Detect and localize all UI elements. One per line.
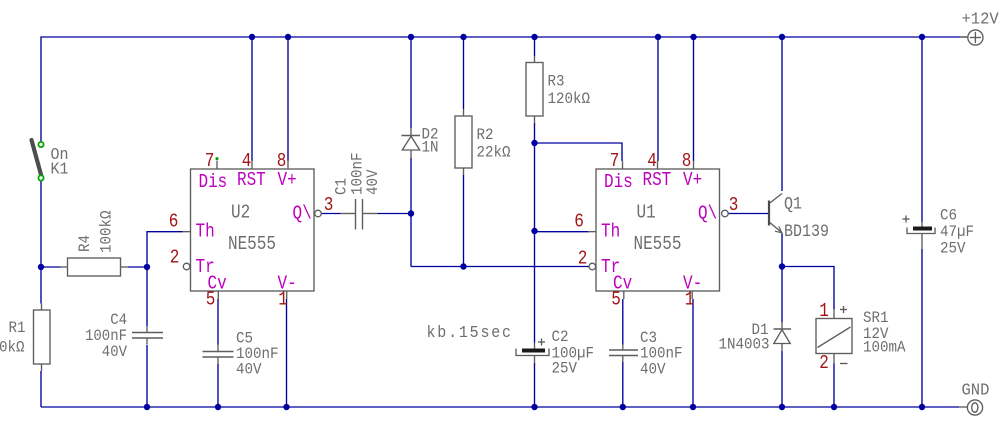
svg-text:SR1: SR1 (863, 310, 889, 327)
timer U2 pin7 unconnected marker (216, 157, 219, 160)
wire U1 pin8 to +12V (693, 37, 695, 161)
timer U1 pin3 bubble (722, 210, 729, 217)
svg-text:8: 8 (682, 151, 692, 173)
svg-text:47µF: 47µF (940, 224, 974, 241)
svg-text:40V: 40V (236, 362, 262, 379)
wire node down to C2 (534, 231, 536, 343)
wire Th line to U2 pin6 (147, 231, 183, 233)
ground symbol (959, 406, 967, 408)
wire Tr line to U1 pin2 (411, 266, 589, 268)
capacitor C6 plus plate (913, 227, 932, 231)
svg-text:U2: U2 (231, 202, 250, 224)
svg-text:100nF: 100nF (236, 346, 279, 363)
switch K1 bottom terminal (38, 175, 43, 180)
resistor R4 body (68, 258, 121, 276)
capacitor C2 minus plate (516, 349, 549, 356)
svg-text:8: 8 (277, 151, 287, 173)
junction node 19 (41,267) (38, 264, 44, 270)
svg-text:5: 5 (206, 289, 216, 311)
wire GND bottom rail (41, 406, 959, 408)
wire U2 pin4 to +12V (251, 37, 253, 161)
svg-text:1: 1 (819, 301, 829, 323)
wire C6 top to +12V rail (921, 37, 923, 222)
relay SR1 minus sign (840, 363, 848, 365)
transistor Q1 emitter stroke (770, 223, 782, 233)
wire R4 right to node (128, 266, 147, 268)
svg-text:BD139: BD139 (784, 222, 829, 241)
svg-text:Th: Th (601, 221, 620, 243)
svg-text:4: 4 (647, 151, 657, 173)
capacitor C6 plus sign (903, 218, 910, 220)
wire Th line to U1 pin6 (535, 231, 590, 233)
junction node 18 (922,407) (919, 404, 925, 410)
svg-text:22kΩ: 22kΩ (477, 145, 511, 162)
wire node down R3 to Th (534, 143, 536, 231)
svg-text:1: 1 (685, 289, 695, 311)
+12V supply symbol (960, 36, 968, 38)
svg-text:kb.15sec: kb.15sec (427, 323, 513, 342)
junction node 11 (218,407) (215, 404, 221, 410)
svg-text:GND: GND (962, 381, 990, 399)
svg-text:1N4003: 1N4003 (719, 337, 770, 354)
svg-text:Th: Th (196, 221, 215, 243)
svg-text:R1: R1 (9, 320, 26, 337)
svg-text:7: 7 (610, 151, 620, 173)
svg-text:100mA: 100mA (863, 340, 906, 357)
svg-text:U1: U1 (637, 202, 656, 224)
wire relay to gnd rail (833, 364, 835, 408)
svg-text:6: 6 (574, 211, 584, 233)
capacitor C5 plates (203, 351, 234, 353)
wire left rail upper (40, 36, 42, 141)
svg-text:2: 2 (578, 248, 588, 270)
switch K1 top terminal (38, 142, 43, 147)
svg-text:V+: V+ (683, 170, 702, 192)
wire Q1 emitter down (781, 234, 783, 267)
svg-text:40V: 40V (365, 169, 382, 195)
svg-text:100nF: 100nF (640, 346, 683, 363)
svg-text:C1: C1 (334, 178, 351, 195)
transistor Q1 collector stroke (770, 194, 782, 204)
relay SR1 plus sign (840, 309, 847, 311)
wire C4 to gnd rail (146, 345, 148, 407)
svg-text:Q\: Q\ (698, 203, 717, 225)
svg-text:NE555: NE555 (634, 234, 682, 256)
timer U2 pin3 bubble (315, 210, 322, 217)
wire R2 top to +12V rail (463, 37, 465, 109)
wire C1 to node D2 (378, 213, 412, 215)
svg-text:C5: C5 (236, 331, 253, 348)
wire U2 pin8 to +12V (287, 37, 289, 161)
svg-text:3: 3 (324, 195, 334, 217)
wire U2 pin1 to gnd rail (286, 299, 288, 407)
svg-text:Q\: Q\ (293, 203, 312, 225)
wire U2 pin5 to C5 (217, 299, 219, 345)
junction node 2 (288,37) (285, 34, 291, 40)
wire R4 left (41, 266, 61, 268)
svg-text:R3: R3 (548, 74, 565, 91)
svg-text:1N: 1N (422, 140, 439, 157)
junction node 3 (411,37) (408, 34, 414, 40)
wire emitter node to relay (782, 267, 834, 310)
timer U1 body (596, 169, 720, 291)
wire R2 bottom to Tr line (463, 175, 465, 267)
svg-text:C3: C3 (640, 330, 657, 347)
wire node up to Th line U2 (146, 231, 148, 267)
relay SR1 diagonal (818, 327, 851, 348)
junction node 21 (411,213.5) (408, 210, 414, 216)
wire R3 top to +12V rail (534, 37, 536, 56)
capacitor C2 plus plate (522, 349, 545, 353)
resistor R1 body (34, 310, 51, 364)
wire C2 to gnd rail (534, 363, 536, 407)
capacitor C6 leads (921, 222, 923, 227)
wire U2 Q out to C1 (321, 213, 340, 215)
diode D2 symbol (402, 135, 421, 137)
wire node to U1 pin7 (535, 143, 623, 161)
svg-text:R4: R4 (77, 235, 94, 252)
junction node 25 (782,266.5) (779, 263, 785, 269)
svg-text:V+: V+ (278, 170, 297, 192)
capacitor C6 minus plate (907, 228, 935, 234)
junction node 14 (622.8,407) (620, 404, 626, 410)
wire left rail lower (R1 to gnd) (40, 371, 42, 407)
svg-text:7: 7 (205, 151, 215, 173)
svg-text:Dis: Dis (199, 172, 228, 194)
junction node 23 (534.5,143) (531, 140, 537, 146)
svg-text:40V: 40V (102, 344, 127, 361)
junction node 9 (922,37) (919, 34, 925, 40)
wire D1 to gnd rail (781, 351, 783, 407)
svg-text:25V: 25V (940, 241, 966, 258)
svg-text:RST: RST (237, 170, 266, 192)
wire Q1 collector to +12V (781, 37, 783, 191)
capacitor C1 plates (355, 199, 357, 230)
svg-text:Dis: Dis (604, 172, 633, 194)
svg-text:K1: K1 (51, 160, 69, 179)
svg-text:RST: RST (643, 170, 672, 192)
junction node 10 (147,407) (144, 404, 150, 410)
svg-text:10kΩ: 10kΩ (0, 340, 25, 357)
svg-text:1: 1 (278, 289, 288, 311)
svg-text:R2: R2 (477, 127, 494, 144)
junction node 22 (463.5,266.5) (460, 263, 466, 269)
junction node 17 (834,407) (831, 404, 837, 410)
svg-text:4: 4 (242, 151, 252, 173)
wire U1 pin5 to C3 (622, 299, 624, 345)
op-amp/timer U2 body (191, 169, 315, 291)
svg-text:40V: 40V (640, 362, 666, 379)
junction node 7 (693.5,37) (690, 34, 696, 40)
svg-text:5: 5 (611, 289, 621, 311)
wire left rail middle (switch to R1) (40, 181, 42, 304)
svg-text:100kΩ: 100kΩ (99, 210, 116, 253)
svg-text:2: 2 (819, 353, 829, 375)
junction node 5 (534.5,37) (531, 34, 537, 40)
resistor R3 body (526, 63, 543, 117)
capacitor C4 plates (132, 332, 163, 334)
junction node 12 (286.5,407) (283, 404, 289, 410)
capacitor C2 plus sign (538, 341, 545, 343)
svg-text:120kΩ: 120kΩ (548, 91, 591, 108)
wire C3 to gnd rail (622, 362, 624, 407)
svg-text:25V: 25V (552, 361, 578, 378)
wire node down to C4 (146, 267, 148, 326)
junction node 4 (463.5,37) (460, 34, 466, 40)
capacitor C2 leads (534, 343, 536, 349)
svg-text:Q1: Q1 (784, 195, 802, 214)
switch K1 lever (32, 140, 42, 177)
relay SR1 box (816, 319, 852, 354)
transistor Q1 base bar (768, 201, 770, 226)
svg-text:NE555: NE555 (228, 234, 276, 256)
resistor R2 body (455, 116, 472, 168)
junction node 20 (147,267) (144, 264, 150, 270)
wire node down to D1 (781, 267, 783, 323)
svg-text:100nF: 100nF (350, 152, 367, 195)
svg-text:+12V: +12V (962, 10, 1000, 28)
junction node 1 (252,37) (249, 34, 255, 40)
svg-text:6: 6 (169, 211, 179, 233)
diode D1 symbol (774, 328, 792, 330)
timer U2 pin2 bubble (183, 263, 190, 270)
wire U1 pin4 to +12V (657, 37, 659, 161)
wire C6 to gnd rail (921, 249, 923, 407)
timer U1 pin2 bubble (589, 263, 596, 270)
svg-text:C4: C4 (110, 312, 127, 329)
svg-text:C2: C2 (552, 329, 569, 346)
junction node 8 (782,37) (779, 34, 785, 40)
wire C5 to gnd rail (217, 364, 219, 407)
junction node 6 (658,37) (655, 34, 661, 40)
wire U1 Q out to Q1 base (728, 213, 769, 215)
wire U1 pin1 to gnd rail (692, 299, 694, 407)
svg-text:100nF: 100nF (85, 328, 127, 345)
junction node 13 (534.5,407) (531, 404, 537, 410)
transistor Q1 emitter arrow (775, 226, 782, 232)
capacitor C3 plates (609, 349, 638, 351)
relay SR1 pin stubs (833, 309, 835, 319)
wire D2 top to +12V rail (410, 37, 412, 128)
wire R3 bottom to node (534, 123, 536, 143)
wire D2 bottom down (410, 158, 412, 267)
svg-text:C6: C6 (940, 208, 957, 225)
svg-text:3: 3 (729, 195, 739, 217)
svg-text:2: 2 (170, 247, 180, 269)
junction node 15 (693,407) (690, 404, 696, 410)
junction node 16 (782,407) (779, 404, 785, 410)
wire +12V top rail (41, 36, 967, 38)
junction node 24 (534.5,231) (531, 228, 537, 234)
